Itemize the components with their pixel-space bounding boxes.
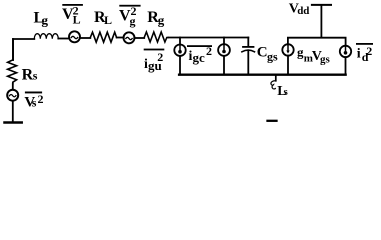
wire Lg to VL: [58, 38, 69, 40]
wire gm bottom: [287, 56, 289, 75]
svg-text:s: s: [33, 69, 38, 83]
label igu2: [144, 49, 165, 73]
current source id: [340, 46, 351, 57]
label igc2: [187, 44, 212, 65]
label Rs: [22, 66, 38, 83]
svg-text:gs: gs: [267, 49, 278, 63]
svg-text:g: g: [158, 13, 165, 28]
Vdd supply bar: [312, 4, 331, 6]
label Lg: [34, 10, 49, 28]
svg-text:L: L: [73, 13, 81, 27]
wire Vs to ground: [12, 101, 14, 121]
wire RL to Vg: [117, 37, 124, 39]
capacitor Cgs: [247, 38, 249, 47]
label Vdd: [289, 1, 310, 16]
ground (left): [5, 121, 22, 124]
svg-text:2: 2: [366, 44, 372, 58]
label Ls: [277, 84, 288, 99]
current source igu: [179, 38, 181, 45]
label RL: [94, 9, 112, 27]
svg-text:L: L: [104, 13, 112, 27]
svg-text:i: i: [357, 47, 361, 62]
svg-text:g: g: [42, 13, 49, 28]
svg-text:dd: dd: [297, 5, 309, 17]
inductor Lg: [34, 34, 58, 39]
wire bottom rail (common source node): [179, 73, 346, 75]
label gmVgs: [297, 45, 331, 66]
label Vs2: [24, 92, 43, 111]
resistor RL: [90, 32, 116, 42]
svg-text:2: 2: [38, 92, 44, 106]
inductor Ls: [275, 75, 277, 81]
wire igu bottom: [179, 56, 181, 75]
svg-text:2: 2: [157, 50, 163, 64]
label Vg2: [119, 4, 141, 28]
source VL (noise voltage source): [69, 31, 80, 42]
wire Vdd stem: [320, 6, 322, 38]
source Vg (noise voltage source): [124, 32, 135, 43]
svg-text:s: s: [284, 86, 289, 98]
resistor Rg: [144, 32, 168, 42]
svg-text:R: R: [22, 66, 34, 83]
svg-text:g: g: [130, 14, 136, 28]
wire Rg to gate node / middle box top rail: [168, 37, 248, 39]
svg-text:s: s: [32, 96, 37, 110]
label VL2: [62, 4, 83, 27]
wire Rs to Vs: [12, 84, 14, 90]
label Rg: [147, 9, 165, 27]
wire VL to RL: [80, 37, 90, 39]
current source igc: [223, 38, 225, 45]
svg-text:gc: gc: [193, 50, 206, 65]
svg-text:gs: gs: [320, 54, 331, 66]
current source gmVgs (dependent source): [282, 44, 293, 55]
wire right box top rail: [288, 38, 346, 46]
wire left branch vertical: [12, 39, 14, 60]
wire Vg to Rg: [134, 37, 144, 39]
wire igc bottom: [223, 56, 225, 75]
ground (source): [268, 120, 277, 122]
wire id bottom: [345, 57, 347, 74]
source Vs (noise voltage source): [7, 90, 18, 101]
resistor Rs: [8, 60, 17, 84]
svg-text:2: 2: [206, 44, 212, 58]
wire top-left corner: [13, 39, 34, 60]
label id2: [356, 43, 373, 64]
label Cgs: [257, 45, 278, 64]
